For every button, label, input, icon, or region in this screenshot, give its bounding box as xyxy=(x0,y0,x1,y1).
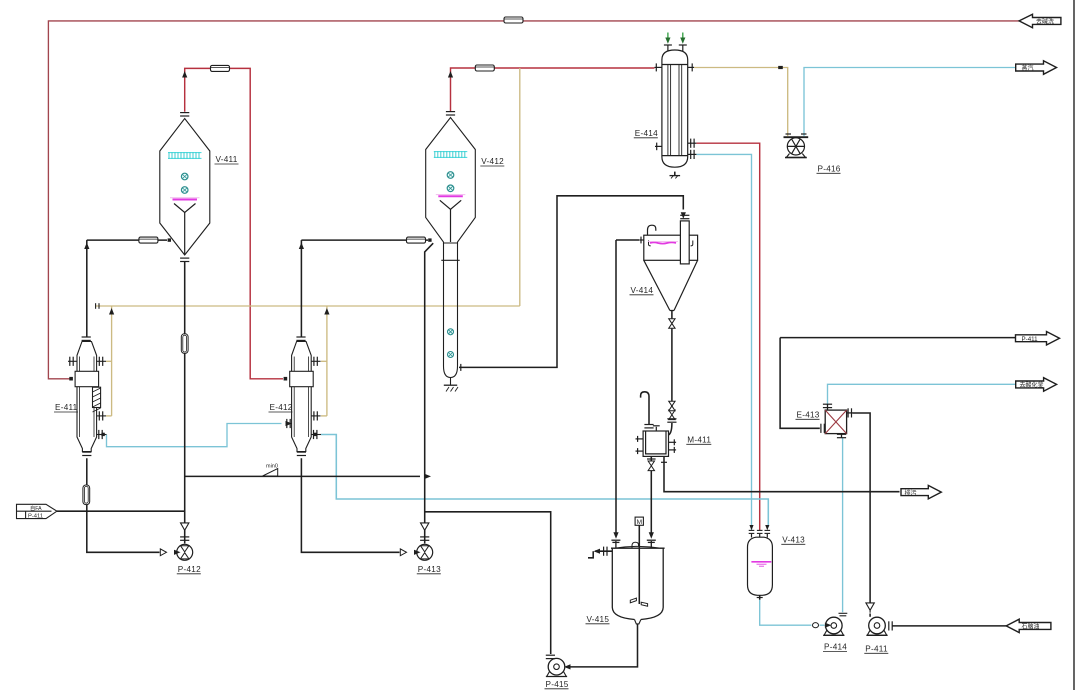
svg-text:P-415: P-415 xyxy=(546,680,569,689)
svg-text:V-413: V-413 xyxy=(782,535,805,544)
svg-text:V-411: V-411 xyxy=(216,155,238,164)
svg-text:P-411: P-411 xyxy=(1022,336,1039,343)
svg-text:V-415: V-415 xyxy=(587,615,610,624)
svg-text:去碱洗: 去碱洗 xyxy=(1036,18,1054,26)
svg-text:石脑油: 石脑油 xyxy=(1022,623,1040,631)
svg-text:M: M xyxy=(637,519,642,526)
svg-text:E-412: E-412 xyxy=(270,403,293,412)
svg-text:E-413: E-413 xyxy=(797,410,820,419)
svg-text:P-412: P-412 xyxy=(178,565,201,574)
svg-text:P-411: P-411 xyxy=(865,644,888,653)
svg-text:P-413: P-413 xyxy=(418,565,441,574)
svg-text:M-411: M-411 xyxy=(687,435,711,444)
svg-text:min0: min0 xyxy=(266,464,278,470)
svg-text:P-414: P-414 xyxy=(824,643,847,652)
svg-text:蒸汽: 蒸汽 xyxy=(1022,64,1034,72)
svg-text:V-412: V-412 xyxy=(481,157,504,166)
svg-text:E-414: E-414 xyxy=(635,129,658,138)
svg-text:V-414: V-414 xyxy=(631,286,654,295)
svg-text:P-411: P-411 xyxy=(28,513,43,519)
svg-text:去酸化釜: 去酸化釜 xyxy=(1020,381,1044,389)
svg-text:排污: 排污 xyxy=(905,489,917,497)
svg-text:E-411: E-411 xyxy=(55,403,78,412)
svg-text:P-416: P-416 xyxy=(818,164,841,173)
svg-text:自FA: 自FA xyxy=(30,504,42,512)
